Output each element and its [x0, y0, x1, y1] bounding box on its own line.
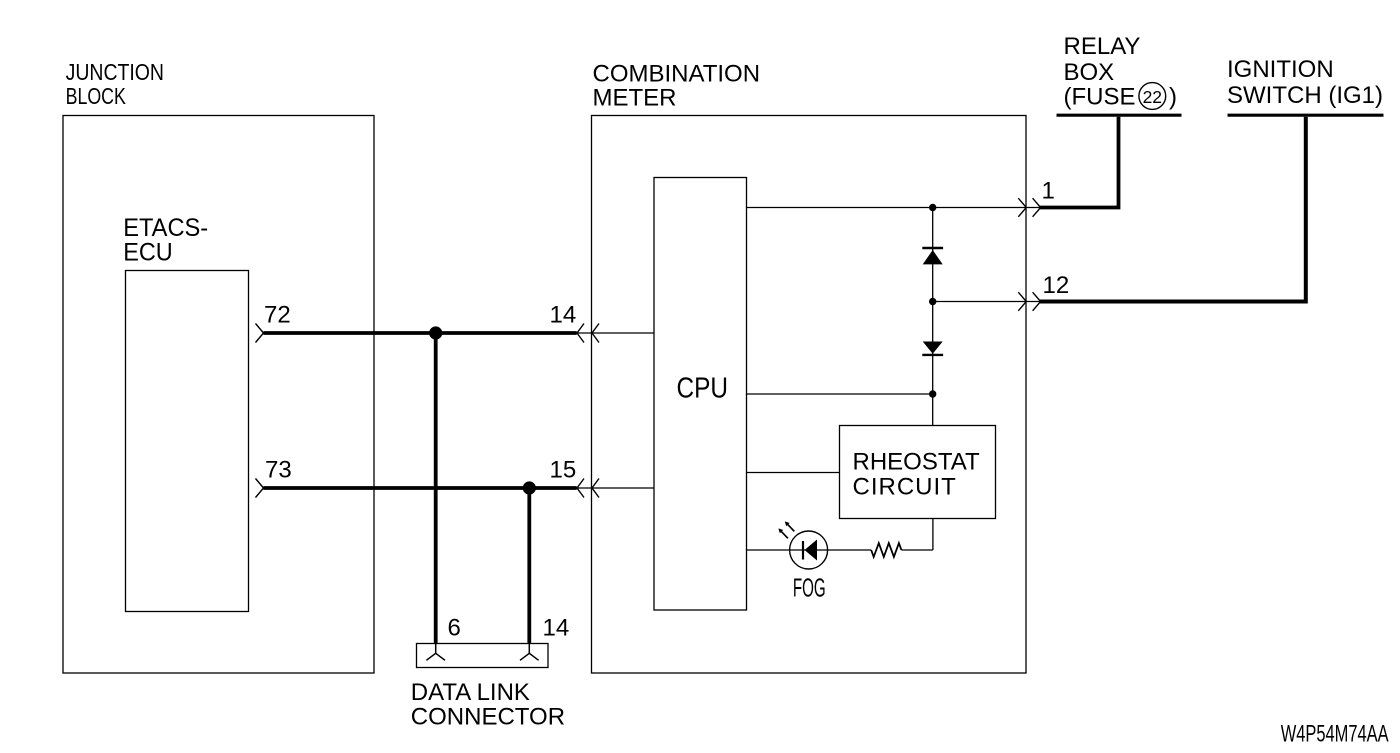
svg-text:W4P54M74AA: W4P54M74AA — [1281, 720, 1389, 747]
svg-text:22: 22 — [1143, 87, 1162, 107]
svg-text:12: 12 — [1043, 272, 1070, 299]
svg-text:73: 73 — [265, 456, 292, 483]
svg-text:14: 14 — [543, 615, 570, 642]
svg-text:CPU: CPU — [677, 373, 729, 405]
svg-text:DATA LINK: DATA LINK — [411, 679, 530, 706]
svg-text:CIRCUIT: CIRCUIT — [853, 474, 957, 501]
svg-text:1: 1 — [1042, 178, 1055, 205]
svg-text:6: 6 — [448, 615, 461, 642]
svg-text:72: 72 — [264, 302, 291, 329]
svg-text:COMBINATION: COMBINATION — [593, 60, 761, 87]
svg-text:METER: METER — [593, 85, 677, 112]
svg-text:RHEOSTAT: RHEOSTAT — [853, 449, 980, 476]
svg-text:BOX: BOX — [1064, 59, 1115, 86]
svg-text:FOG: FOG — [793, 572, 826, 602]
svg-text:CONNECTOR: CONNECTOR — [411, 704, 565, 731]
svg-text:14: 14 — [550, 302, 577, 329]
svg-text:(FUSE: (FUSE — [1064, 83, 1136, 110]
svg-text:): ) — [1169, 83, 1177, 110]
svg-text:IGNITION: IGNITION — [1227, 56, 1334, 83]
svg-text:RELAY: RELAY — [1064, 33, 1141, 60]
svg-text:SWITCH (IG1): SWITCH (IG1) — [1227, 82, 1383, 109]
svg-text:BLOCK: BLOCK — [66, 83, 127, 109]
svg-text:ECU: ECU — [123, 239, 173, 267]
svg-text:15: 15 — [550, 456, 577, 483]
svg-text:JUNCTION: JUNCTION — [66, 59, 164, 85]
